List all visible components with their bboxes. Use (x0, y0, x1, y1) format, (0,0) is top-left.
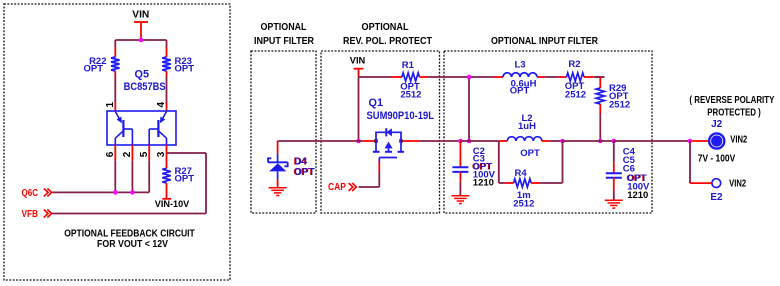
svg-text:VIN2: VIN2 (729, 179, 746, 190)
svg-text:4: 4 (156, 102, 167, 108)
svg-text:CAP: CAP (328, 182, 346, 193)
svg-text:( REVERSE POLARITY: ( REVERSE POLARITY (689, 95, 774, 106)
svg-text:D4: D4 (294, 156, 307, 167)
svg-text:OPT: OPT (294, 167, 315, 178)
svg-text:2512: 2512 (565, 90, 586, 101)
svg-text:VIN: VIN (350, 56, 366, 67)
svg-text:VIN: VIN (132, 9, 149, 20)
svg-text:OPT: OPT (510, 86, 530, 97)
svg-text:1210: 1210 (473, 178, 494, 189)
svg-text:OPTIONAL: OPTIONAL (261, 22, 307, 33)
svg-text:L3: L3 (514, 60, 525, 71)
svg-text:OPT: OPT (83, 64, 103, 75)
svg-text:INPUT FILTER: INPUT FILTER (254, 36, 315, 47)
svg-text:OPT: OPT (175, 174, 195, 185)
svg-text:R1: R1 (402, 60, 415, 71)
svg-text:E2: E2 (710, 192, 723, 203)
svg-text:Q6C: Q6C (22, 188, 39, 199)
svg-text:1210: 1210 (627, 190, 648, 201)
svg-text:R2: R2 (568, 59, 580, 70)
svg-text:BC857BS: BC857BS (124, 81, 166, 93)
svg-text:2512: 2512 (513, 198, 534, 209)
svg-text:3: 3 (156, 151, 167, 157)
svg-text:7V - 100V: 7V - 100V (698, 153, 736, 164)
svg-text:Q1: Q1 (369, 97, 384, 109)
svg-text:1uH: 1uH (518, 121, 536, 132)
svg-text:PROTECTED ): PROTECTED ) (707, 107, 761, 118)
svg-text:OPT: OPT (175, 64, 195, 75)
svg-text:Q5: Q5 (135, 69, 150, 81)
svg-text:6: 6 (105, 151, 116, 157)
svg-text:2512: 2512 (609, 100, 630, 111)
svg-text:VIN-10V: VIN-10V (155, 199, 190, 210)
svg-text:OPT: OPT (520, 148, 540, 159)
svg-text:2512: 2512 (400, 90, 421, 101)
svg-text:SUM90P10-19L: SUM90P10-19L (367, 110, 435, 122)
svg-text:R4: R4 (515, 168, 528, 179)
svg-text:1: 1 (105, 102, 116, 108)
svg-text:OPTIONAL: OPTIONAL (362, 22, 409, 33)
svg-text:REV. POL. PROTECT: REV. POL. PROTECT (343, 36, 432, 47)
svg-text:J2: J2 (711, 119, 723, 130)
svg-text:FOR VOUT < 12V: FOR VOUT < 12V (97, 239, 168, 250)
svg-text:VFB: VFB (22, 209, 39, 220)
svg-text:VIN2: VIN2 (730, 135, 747, 146)
svg-text:OPTIONAL FEEDBACK CIRCUIT: OPTIONAL FEEDBACK CIRCUIT (64, 228, 195, 239)
svg-text:OPTIONAL INPUT FILTER: OPTIONAL INPUT FILTER (491, 36, 599, 47)
